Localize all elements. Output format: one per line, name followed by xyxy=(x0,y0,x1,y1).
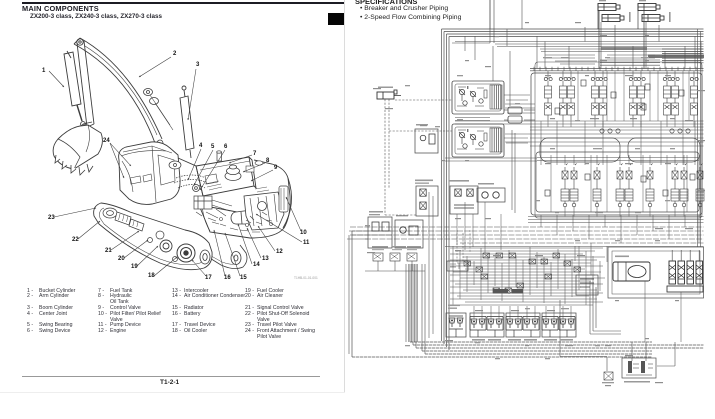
counterweight xyxy=(202,178,291,231)
right page header xyxy=(355,0,417,6)
bucket link xyxy=(77,122,92,131)
manifold channel 1 xyxy=(540,138,620,162)
pump connector blocks xyxy=(504,107,522,123)
bottom unit wires xyxy=(560,342,675,371)
motor speck 2 xyxy=(669,12,671,22)
boom hose fittings xyxy=(144,89,159,105)
manifold channel 2 xyxy=(628,138,700,162)
callout 1 xyxy=(42,68,64,87)
outer border frame xyxy=(442,29,704,350)
check valve row xyxy=(600,129,690,133)
travel motor group 2 xyxy=(638,4,664,30)
deck hatch lines xyxy=(205,181,269,192)
row2 filler wires xyxy=(545,155,695,212)
row1 lower weave xyxy=(455,121,704,146)
title MAIN COMPONENTS xyxy=(22,4,99,13)
pump unit 1 xyxy=(452,81,504,114)
callout 17 xyxy=(192,260,212,281)
left small box B xyxy=(395,215,423,248)
deck small parts xyxy=(205,161,263,184)
callout 9 xyxy=(251,165,278,181)
web feed dashed verticals xyxy=(457,230,470,262)
swing device xyxy=(169,161,181,169)
left extension rails xyxy=(445,104,537,161)
cab windows xyxy=(122,146,175,202)
pilot shutoff cluster xyxy=(449,180,478,214)
top rails and dense band xyxy=(455,42,704,66)
row1 filler wires xyxy=(555,71,689,121)
pilot valve group 1 xyxy=(470,313,504,341)
signal box right xyxy=(576,275,598,295)
pilot valve cluster on deck xyxy=(103,208,144,231)
callout 22 xyxy=(72,221,100,243)
footer page number xyxy=(160,379,179,386)
callout 19 xyxy=(131,246,158,270)
solenoid valve unit left xyxy=(415,180,438,217)
arm xyxy=(77,41,94,127)
track frame xyxy=(94,203,212,270)
bottom solenoid unit xyxy=(622,358,656,383)
callout 7 xyxy=(229,151,257,163)
boom foot joint xyxy=(157,140,163,146)
callout 12 xyxy=(258,226,283,255)
arm top joint xyxy=(77,39,83,45)
callout 15 xyxy=(225,233,247,281)
border right closures xyxy=(698,29,701,247)
motor drop lines xyxy=(599,11,659,69)
extra border verticals xyxy=(429,192,433,338)
tiny annotation specks xyxy=(365,0,690,359)
drop lines to rails xyxy=(457,202,699,342)
attachment cylinder label xyxy=(378,87,393,89)
mid rails xyxy=(349,217,704,247)
left vertical bundle xyxy=(406,264,417,342)
more annotation specks xyxy=(367,22,705,386)
valve row 2 clusters xyxy=(561,155,704,217)
callout 13 xyxy=(247,228,269,262)
pump device xyxy=(231,210,253,224)
control valve box xyxy=(194,196,212,209)
cab floor detail xyxy=(130,174,152,184)
left page header rule xyxy=(22,2,344,4)
page divider xyxy=(344,0,345,393)
left horizontals xyxy=(347,215,416,239)
upper weave xyxy=(545,55,655,64)
callout 23 xyxy=(48,208,96,221)
cab xyxy=(119,142,180,205)
bottom pilot bus lines xyxy=(352,342,704,357)
small rollers xyxy=(148,231,178,262)
center joint xyxy=(193,185,200,192)
bottom filter xyxy=(602,372,614,383)
callout 2 xyxy=(139,51,177,77)
pump unit 2 xyxy=(452,124,504,157)
pilot source cluster xyxy=(477,183,505,202)
control valve top rail xyxy=(530,67,704,71)
subtitle class list xyxy=(30,13,162,20)
callout 18 xyxy=(148,257,177,279)
left small box A xyxy=(368,211,392,248)
motor speck 1 xyxy=(629,12,631,22)
pump inter wiring xyxy=(455,95,535,143)
hydraulic circuit schematic xyxy=(345,0,715,419)
travel pilot valve xyxy=(446,305,466,338)
vertical tie lines xyxy=(465,0,701,106)
air cleaner cap xyxy=(225,165,241,181)
boom hoses xyxy=(150,95,173,130)
nested corner lines xyxy=(590,281,621,334)
parts list xyxy=(0,0,345,419)
right track xyxy=(197,239,247,269)
attachment pilot dashed line xyxy=(385,99,389,215)
track roller ring xyxy=(160,240,172,252)
footer rule xyxy=(22,376,320,377)
callout 16 xyxy=(214,230,231,281)
pilot valve risers xyxy=(474,306,571,319)
pilot valve group 3 xyxy=(542,313,576,341)
travel device sprocket xyxy=(177,244,195,262)
signal control dark blocks xyxy=(493,289,523,294)
dense text bar 1 xyxy=(601,47,647,50)
callout 21 xyxy=(105,231,139,254)
attachment cylinder xyxy=(377,90,401,99)
callout 11 xyxy=(256,214,310,246)
row2 block outline xyxy=(536,152,699,212)
signal control valves xyxy=(464,253,581,293)
bucket xyxy=(53,125,102,169)
body outline xyxy=(178,158,290,238)
valve block outline 2 xyxy=(535,62,702,218)
deck pipes xyxy=(206,200,232,218)
inter-row verticals xyxy=(541,121,695,165)
black tab square xyxy=(328,13,344,25)
callout 6 xyxy=(200,144,228,190)
callout 24 second leader xyxy=(110,143,124,178)
dense text bar 2 xyxy=(648,55,704,59)
callout 3 xyxy=(188,62,200,120)
accumulator block xyxy=(415,124,438,153)
valve row 1 clusters xyxy=(544,71,698,127)
engine block xyxy=(244,192,284,230)
bus left risers xyxy=(349,231,425,357)
pump feed verticals xyxy=(452,0,515,213)
fuel tank xyxy=(196,157,256,196)
attachment feed dashed xyxy=(389,100,452,131)
tank cap post xyxy=(217,151,222,161)
callout 10 xyxy=(286,197,307,236)
arm cylinder (bucket cylinder) xyxy=(64,51,85,126)
lower valve trio xyxy=(372,246,421,261)
boom cylinder xyxy=(180,86,194,158)
callout 20 xyxy=(118,240,148,262)
radiator group xyxy=(279,186,288,212)
swing enclosure box xyxy=(608,247,704,298)
valve block outline xyxy=(531,73,702,215)
callout 24 xyxy=(103,138,131,166)
pilot valve group 2 xyxy=(506,313,540,341)
travel motor group 1 xyxy=(598,4,624,30)
deck clutter xyxy=(196,212,273,232)
signal inlet box xyxy=(447,261,468,271)
cab roof curve xyxy=(121,151,166,156)
callout 8 xyxy=(243,158,270,172)
boom xyxy=(74,38,162,143)
swing riser xyxy=(559,300,561,357)
idler end xyxy=(200,250,210,264)
swing device box xyxy=(613,256,650,282)
callout 14 xyxy=(238,224,260,268)
callout 4 xyxy=(188,143,203,180)
row2 top weave xyxy=(537,158,699,161)
trio stems xyxy=(365,261,425,271)
excavator main components drawing xyxy=(0,0,345,419)
swing bearing ring xyxy=(174,175,208,188)
signal control web xyxy=(450,246,605,306)
bucket teeth xyxy=(55,155,93,175)
callout 5 xyxy=(194,144,215,185)
swing brake valves xyxy=(667,250,703,292)
